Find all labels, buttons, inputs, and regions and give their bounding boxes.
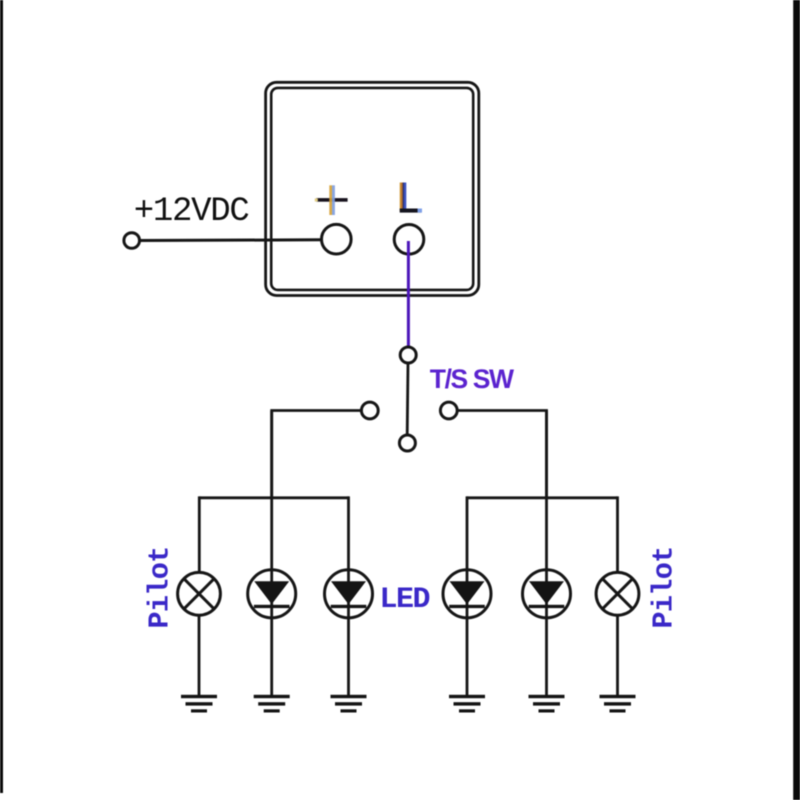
svg-text:LED: LED — [380, 583, 430, 617]
flasher relay box U1 (outer border) — [266, 82, 479, 295]
wire pilot lamp right to ground — [616, 615, 619, 697]
svg-text:Pilot: Pilot — [144, 546, 177, 628]
switch pole bottom circle — [399, 435, 415, 451]
svg-text:T/S SW: T/S SW — [430, 364, 514, 394]
purple wire L terminal to switch — [407, 241, 410, 347]
wire pilot lamp left to ground — [198, 615, 201, 697]
wire switch left contact to left branch feed — [272, 411, 362, 498]
label + (plus terminal marking) — [315, 185, 348, 215]
wire +12VDC to + terminal — [140, 238, 322, 242]
wire drop through LED D3 — [466, 496, 469, 696]
pilot lamp left (circle with X) — [178, 572, 221, 615]
turn-signal switch SW1 — [361, 347, 457, 451]
wire drop to pilot lamp right (top) — [616, 496, 619, 573]
ground symbol under LED D3 — [449, 695, 485, 713]
svg-text:+12VDC: +12VDC — [134, 193, 249, 231]
terminal L (pin circle) — [394, 225, 424, 255]
switch arm wire — [406, 363, 410, 434]
svg-text:Pilot: Pilot — [648, 546, 681, 628]
right bus wire — [467, 496, 618, 499]
switch left contact circle — [361, 402, 378, 419]
LED D4 — [523, 570, 571, 618]
+12VDC input terminal circle — [124, 233, 140, 249]
flasher relay box U1 (inner border) — [271, 88, 473, 290]
ground symbol under pilot right — [600, 695, 636, 713]
wire switch right contact to right branch feed — [457, 411, 546, 498]
switch right contact circle — [440, 402, 457, 419]
LED D1 — [248, 570, 296, 618]
terminal + (pin circle) — [322, 224, 352, 254]
wire drop to pilot lamp left (top) — [198, 496, 201, 573]
pilot lamp right (circle with X) — [596, 572, 639, 615]
label L (load terminal marking) — [400, 183, 422, 213]
LED D3 — [443, 570, 491, 618]
left bus wire — [199, 496, 349, 499]
ground symbol under pilot left — [181, 695, 217, 713]
switch top contact circle — [400, 347, 416, 363]
wire drop through LED D2 — [347, 496, 350, 696]
ground symbol under LED D2 — [331, 695, 367, 713]
ground symbol under LED D4 — [529, 695, 565, 713]
wire drop through LED D1 — [270, 411, 273, 697]
LED D2 — [325, 570, 373, 618]
wire drop through LED D4 — [545, 411, 548, 697]
ground symbol under LED D1 — [254, 695, 290, 713]
